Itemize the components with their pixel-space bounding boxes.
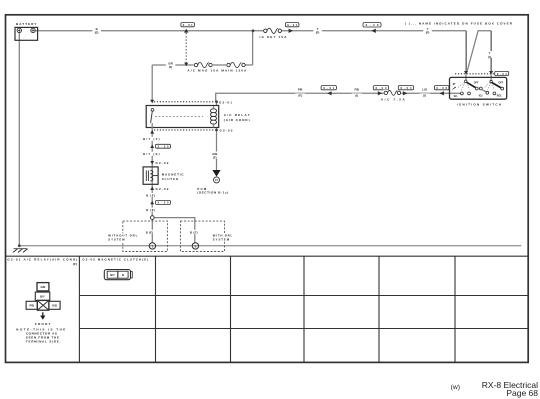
svg-text:X-01: X-01 [287,23,298,27]
svg-text:MAGNETIC: MAGNETIC [162,173,185,177]
svg-text:REC: REC [497,96,502,98]
svg-text:B/Y (F): B/Y (F) [143,137,160,141]
svg-text:G/R: G/R [168,61,173,65]
svg-text:OFF: OFF [499,83,504,85]
svg-text:(F): (F) [426,31,430,35]
svg-text:G/B: G/B [52,304,57,308]
svg-text:15: 15 [215,178,218,182]
svg-text:OFF: OFF [474,83,479,85]
svg-text:X-04: X-04 [497,72,508,76]
svg-text:B (E): B (E) [146,230,154,234]
svg-text:B: B [122,273,124,277]
svg-text:IG1: IG1 [454,96,458,98]
svg-text:X-06: X-06 [436,86,448,90]
svg-text:BATTERY: BATTERY [16,22,37,26]
svg-text:L/O: L/O [422,88,427,92]
svg-text:SYSTEM: SYSTEM [108,238,125,242]
svg-text:(F): (F) [73,262,77,266]
svg-text:G2-03: G2-03 [220,129,233,133]
svg-text:P/B: P/B [29,304,34,308]
svg-text:G2-01 A/C RELAY(AIR COND): G2-01 A/C RELAY(AIR COND) [7,257,77,261]
svg-text:G2-02: G2-02 [156,161,169,165]
svg-text:(F): (F) [316,31,320,35]
svg-text:(I): (I) [488,55,491,59]
svg-text:X-01: X-01 [323,86,335,90]
svg-text:B/Y (E): B/Y (E) [143,152,160,156]
svg-text:F/B: F/B [298,88,303,92]
svg-text:X-04: X-04 [400,86,412,90]
svg-text:B (F): B (F) [190,230,198,234]
svg-text:IG2: IG2 [479,96,483,98]
svg-text:X-01: X-01 [183,23,194,27]
svg-text:B/Y: B/Y [110,273,115,277]
svg-text:(I): (I) [355,94,358,98]
svg-text:ST: ST [453,84,457,86]
svg-text:A/C MAG 10A MAIN 120A: A/C MAG 10A MAIN 120A [187,69,247,73]
svg-text:TERMINAL SIDE.: TERMINAL SIDE. [26,340,61,344]
svg-text:SYSTEM: SYSTEM [213,238,230,242]
svg-text:( )... NAME INDICATED ON FUSE: ( )... NAME INDICATED ON FUSE BOX COVER [405,22,513,26]
svg-text:G2-02: G2-02 [156,187,169,191]
svg-text:B (E): B (E) [146,193,155,197]
svg-text:F/B: F/B [354,88,359,92]
svg-text:(F): (F) [213,156,217,160]
svg-text:A/C RELAY: A/C RELAY [224,113,250,117]
svg-text:(SECTION B-1c): (SECTION B-1c) [197,191,228,195]
svg-text:G2-02 MAGNETIC CLUTCH(E): G2-02 MAGNETIC CLUTCH(E) [82,257,148,261]
svg-text:FRONT: FRONT [35,322,51,326]
svg-text:B/Y: B/Y [40,295,45,299]
svg-text:(E): (E) [95,31,99,35]
svg-text:IGNITION SWITCH: IGNITION SWITCH [457,103,502,107]
svg-text:IG KEY 15A: IG KEY 15A [260,35,288,39]
svg-text:X-06: X-06 [366,23,380,27]
svg-text:B (E): B (E) [146,208,155,212]
svg-text:G2-01: G2-01 [219,101,232,105]
svg-text:G/B: G/B [41,285,46,289]
svg-text:(AIR COND): (AIR COND) [224,118,250,122]
svg-text:(I): (I) [423,94,426,98]
svg-text:(F): (F) [169,65,172,69]
svg-text:X-03: X-03 [375,86,387,90]
svg-text:A/C 7.5A: A/C 7.5A [381,97,406,101]
svg-text:(F): (F) [298,94,302,98]
svg-text:CLUTCH: CLUTCH [162,177,179,181]
